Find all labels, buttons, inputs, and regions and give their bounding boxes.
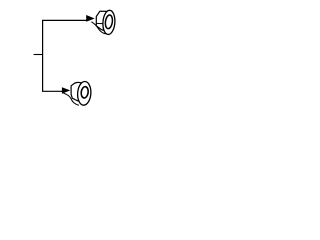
nut N1: flange back-face arc <box>64 93 79 105</box>
nut N2: flange back-face arc <box>91 22 105 34</box>
nut N1: flange face (outer ellipse) <box>77 81 92 106</box>
nut N1: hole (inner ellipse) <box>80 86 88 98</box>
wire: left tick stub <box>34 54 43 56</box>
background <box>0 0 150 115</box>
nut N2: hole (inner ellipse) <box>105 15 114 30</box>
nut N2: hex body <box>96 11 106 31</box>
wire: bracket (top horizontal, vertical, bottom horizontal) <box>43 20 87 91</box>
arrow to bottom nut <box>62 87 70 94</box>
nut N1 (bottom flange nut) <box>64 81 92 106</box>
nut N2 (top flange nut) <box>91 10 115 35</box>
nut N1: hex body <box>71 82 81 101</box>
nut N2: hex facet line <box>97 22 103 24</box>
arrow to top nut <box>86 15 95 22</box>
nut N2: flange face (outer ellipse) <box>102 10 116 35</box>
